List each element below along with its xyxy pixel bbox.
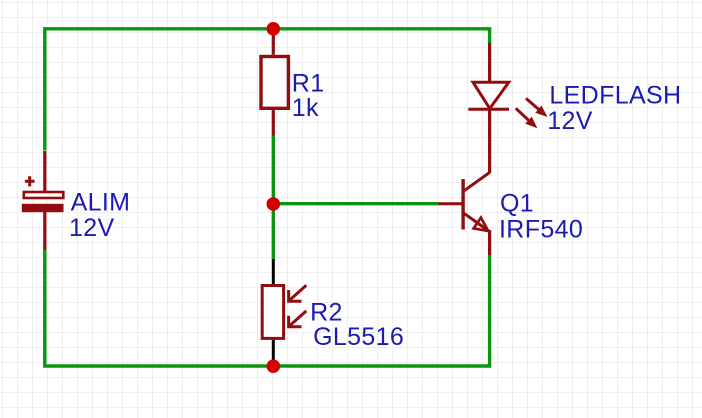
svg-text:GL5516: GL5516 [313,323,404,351]
transistor Q1 emitter arrowhead [474,218,489,231]
battery top plate [24,192,64,198]
transistor Q1 base pin [438,202,462,205]
svg-text:LEDFLASH: LEDFLASH [549,82,681,110]
transistor Q1 emitter [464,213,489,231]
transistor Q1 emitter pin [488,230,491,255]
wire node to Q1 base [273,202,438,205]
photoresistor R2 pin top (black) [272,259,275,285]
photoresistor R2 light arrow lower [289,311,307,327]
LED pins [488,43,491,173]
svg-text:12V: 12V [69,214,115,242]
junction node middle [267,197,281,211]
wire R1 bottom to node [272,135,275,204]
LED emission arrow upper [526,98,548,117]
svg-text:Q1: Q1 [500,190,534,218]
LED cathode bar [468,108,509,111]
battery plus sign [25,176,35,186]
battery bottom plate [22,204,64,212]
wire node to R2 [272,204,275,260]
wire top-left loop (V+ rail) [45,29,490,151]
svg-text:12V: 12V [547,107,593,135]
battery ALIM pins [43,151,46,250]
photoresistor R2 body [262,286,283,339]
svg-text:IRF540: IRF540 [499,216,583,244]
LED triangle [473,82,509,108]
wire bottom loop (ground rail) [45,249,490,366]
resistor R1 body [261,57,288,109]
svg-text:ALIM: ALIM [71,189,131,217]
photoresistor R2 light arrow upper [289,285,307,301]
junction node top [267,22,281,36]
LED emission arrow lower [516,108,538,128]
transistor Q1 collector [464,173,490,191]
resistor R1 pins [272,27,275,136]
photoresistor R2 pin bottom (black) [272,339,275,366]
transistor Q1 base bar [461,179,464,230]
junction node bottom [267,359,281,373]
svg-text:1k: 1k [292,94,319,122]
